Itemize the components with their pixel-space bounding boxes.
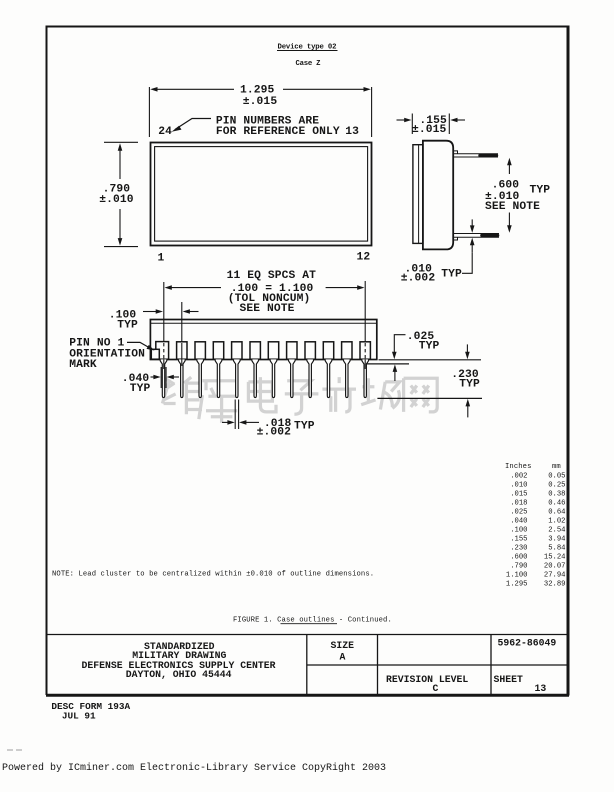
figure caption underline bbox=[281, 623, 338, 625]
svg-text:.230: .230 bbox=[510, 544, 527, 552]
svg-text:.100: .100 bbox=[510, 526, 527, 534]
svg-text:±.015: ±.015 bbox=[412, 124, 447, 136]
dim .010 lead thickness arrows bbox=[471, 219, 473, 252]
svg-text:5.84: 5.84 bbox=[548, 544, 565, 552]
ext line pin12 bbox=[364, 281, 366, 343]
dim .790 extension ticks bbox=[104, 142, 138, 246]
svg-text:A: A bbox=[340, 652, 346, 663]
svg-text:.790: .790 bbox=[510, 562, 527, 570]
svg-text:11 EQ SPCS AT: 11 EQ SPCS AT bbox=[227, 270, 317, 282]
svg-text:DAYTON, OHIO 45444: DAYTON, OHIO 45444 bbox=[126, 669, 232, 680]
pin 8 bbox=[287, 342, 297, 398]
svg-text:1.02: 1.02 bbox=[548, 517, 565, 525]
svg-text:±.002: ±.002 bbox=[257, 427, 292, 439]
char chang bbox=[361, 378, 399, 409]
svg-text:TYP: TYP bbox=[130, 383, 151, 395]
dim .790 arrows bbox=[118, 143, 123, 245]
ext line pin1 bbox=[163, 282, 165, 343]
dim .100 arrows bbox=[143, 311, 199, 313]
package bar outline bbox=[150, 320, 376, 360]
scan artifact dash bbox=[7, 749, 24, 751]
svg-text:.155: .155 bbox=[510, 535, 527, 543]
svg-text:JUL 91: JUL 91 bbox=[62, 711, 96, 722]
svg-text:0.25: 0.25 bbox=[548, 481, 565, 489]
svg-text:0.46: 0.46 bbox=[548, 499, 565, 507]
pin 2 bbox=[177, 342, 187, 398]
package outline outer bbox=[151, 143, 372, 246]
svg-text:.010: .010 bbox=[510, 481, 527, 489]
char wei bbox=[162, 377, 202, 414]
svg-text:SEE NOTE: SEE NOTE bbox=[485, 201, 540, 213]
pin 7 bbox=[268, 342, 278, 398]
svg-text:0.38: 0.38 bbox=[548, 490, 565, 498]
svg-text:3.94: 3.94 bbox=[548, 535, 565, 543]
svg-text:.040: .040 bbox=[510, 517, 527, 525]
svg-text:27.94: 27.94 bbox=[544, 571, 566, 579]
shoulder plane line B bbox=[366, 363, 409, 365]
dim .025 up arrow bbox=[394, 372, 396, 382]
ext line pin2 bbox=[181, 302, 183, 365]
svg-text:Powered by ICminer.com Electro: Powered by ICminer.com Electronic-Librar… bbox=[2, 762, 386, 774]
char ku bbox=[199, 381, 239, 423]
conversion table values bbox=[506, 472, 566, 588]
svg-text:1.100: 1.100 bbox=[506, 571, 528, 579]
dim .018 arrows bbox=[222, 421, 259, 423]
svg-text:FOR REFERENCE ONLY: FOR REFERENCE ONLY bbox=[216, 126, 340, 138]
dim .018 ticks bbox=[235, 400, 238, 430]
svg-text:±.015: ±.015 bbox=[243, 96, 278, 108]
dim .155 extension lines bbox=[412, 114, 449, 135]
title block frame bbox=[47, 635, 569, 696]
char dian bbox=[248, 377, 276, 412]
pin1 dashed centerline bbox=[163, 343, 165, 360]
svg-text:TYP: TYP bbox=[441, 269, 462, 281]
char zi bbox=[285, 381, 319, 415]
pin 9 bbox=[305, 342, 315, 398]
char shi bbox=[322, 377, 356, 412]
pin 3 bbox=[195, 342, 205, 398]
svg-text:20.07: 20.07 bbox=[544, 562, 566, 570]
svg-text:15.24: 15.24 bbox=[544, 553, 566, 561]
side body main bbox=[423, 141, 453, 250]
lead tip line bbox=[377, 397, 482, 399]
page frame bbox=[46, 26, 569, 696]
pin 4 bbox=[213, 342, 223, 398]
svg-text:TYP: TYP bbox=[294, 421, 315, 433]
svg-text:TYP: TYP bbox=[419, 341, 440, 353]
pin 6 bbox=[250, 342, 260, 398]
dim .230 down arrow bbox=[466, 344, 468, 354]
svg-text:TYP: TYP bbox=[530, 185, 551, 197]
svg-text:±.002: ±.002 bbox=[401, 272, 436, 284]
svg-text:.002: .002 bbox=[510, 472, 527, 480]
pin 10 bbox=[323, 342, 333, 398]
svg-text:mm: mm bbox=[552, 463, 561, 471]
svg-text:C: C bbox=[433, 683, 439, 694]
svg-text:.025: .025 bbox=[510, 508, 527, 516]
svg-text:1.295: 1.295 bbox=[506, 580, 528, 588]
svg-text:12: 12 bbox=[357, 252, 371, 264]
package outline inner bbox=[155, 147, 368, 242]
dim .040 arrows bbox=[151, 376, 180, 378]
svg-text:MARK: MARK bbox=[69, 359, 97, 371]
pin 1 lead bbox=[160, 359, 167, 397]
side body back plate bbox=[413, 145, 423, 244]
watermark bbox=[162, 377, 437, 423]
pin 5 bbox=[232, 342, 242, 398]
svg-text:1: 1 bbox=[158, 253, 165, 265]
dim .010 leader bbox=[462, 252, 472, 273]
bar inner top line bbox=[150, 322, 376, 324]
dim .040 ticks bbox=[161, 367, 166, 388]
pin 11 bbox=[342, 342, 352, 398]
pin numbers note leader bbox=[175, 119, 211, 130]
svg-text:5962-86049: 5962-86049 bbox=[498, 638, 557, 649]
svg-text:TYP: TYP bbox=[117, 320, 138, 332]
svg-text:13: 13 bbox=[535, 683, 547, 694]
side top lead bbox=[453, 151, 498, 157]
pin1 leader arrow bbox=[127, 342, 149, 347]
svg-text:.600: .600 bbox=[492, 180, 520, 192]
svg-text:24: 24 bbox=[158, 126, 172, 138]
dim .230 up arrow bbox=[467, 406, 469, 418]
svg-text:SHEET: SHEET bbox=[494, 674, 524, 685]
pin 1 shoulder with orientation tab bbox=[151, 342, 168, 360]
dim .155 arrows bbox=[397, 119, 466, 121]
svg-text:SIZE: SIZE bbox=[331, 640, 355, 651]
svg-text:2.54: 2.54 bbox=[548, 526, 565, 534]
svg-text:TYP: TYP bbox=[459, 379, 480, 391]
seating plane line A bbox=[379, 359, 482, 361]
pin 12 bbox=[360, 342, 370, 398]
svg-text:.018: .018 bbox=[510, 499, 527, 507]
dim 1.295 extension lines bbox=[149, 87, 371, 137]
char wang bbox=[404, 378, 438, 412]
header: Device type 02 bbox=[277, 44, 338, 52]
dim 1.295 line with arrows bbox=[156, 88, 365, 90]
svg-text:Case Z: Case Z bbox=[296, 60, 322, 68]
dim .025 leader bbox=[394, 335, 405, 352]
side bottom lead bbox=[453, 234, 499, 241]
svg-text:0.64: 0.64 bbox=[548, 508, 565, 516]
svg-text:32.89: 32.89 bbox=[544, 580, 566, 588]
svg-text:0.05: 0.05 bbox=[548, 472, 565, 480]
svg-text:NOTE: Lead cluster to be cent: NOTE: Lead cluster to be centralized wit… bbox=[52, 571, 374, 579]
svg-text:13: 13 bbox=[345, 126, 359, 138]
side body plate inner line bbox=[418, 145, 420, 243]
svg-text:SEE NOTE: SEE NOTE bbox=[240, 303, 295, 315]
svg-text:1.295: 1.295 bbox=[240, 85, 275, 97]
svg-text:.015: .015 bbox=[510, 490, 527, 498]
svg-text:Inches: Inches bbox=[505, 463, 531, 471]
svg-text:REVISION LEVEL: REVISION LEVEL bbox=[386, 674, 468, 685]
svg-text:.600: .600 bbox=[510, 553, 527, 561]
svg-text:±.010: ±.010 bbox=[99, 194, 134, 206]
dim .600 arrows bbox=[508, 165, 510, 227]
